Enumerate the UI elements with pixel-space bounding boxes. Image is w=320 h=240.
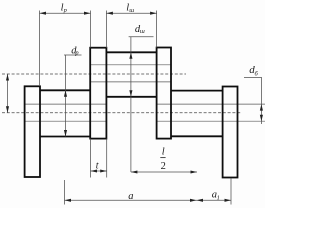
svg-text:2: 2 [161,161,166,172]
thin shaft line upper-right segment [157,103,265,105]
svg-text:t: t [96,161,99,172]
dimension a: right arrow at junction [190,199,197,202]
crank pin thin line upper [90,64,171,66]
dimension a1: left arrow at junction [197,199,204,202]
thin shaft line lower-left segment [25,120,106,122]
thin shaft line lower-right segment [157,120,265,122]
thin shaft line upper-left segment [25,103,106,105]
dimension a1: extension line right (web D center) [230,178,232,205]
dimension d_p: leader underline [64,54,82,56]
crank radius dimension line [7,74,9,113]
dimension d_p: top arrow [64,90,67,97]
dimension a: extension line left (journal 1 center) [64,180,66,205]
lower centerline (main journal axis) [2,112,242,114]
dimension d_b: leader vertical [260,77,262,124]
svg-text:ш: ш [129,7,134,14]
main journal 2 top edge [171,90,223,92]
web C (right crank web) [157,48,171,139]
dimension l_p: left arrow [40,12,47,15]
crank pin top edge [106,51,156,53]
dimension l_sh: extension line right [156,11,158,48]
crank radius bottom arrow [6,106,9,113]
dimension t: extension line right [106,139,108,178]
dimension a: dimension line [65,199,232,201]
svg-text:a: a [128,191,133,202]
svg-text:р: р [74,50,79,57]
dimension a1: right arrow [225,199,232,202]
crank radius top arrow [6,74,9,81]
label l/2 fraction bar [160,157,165,159]
dimension l_sh: left arrow [106,12,113,15]
dimension d_sh: leader vertical [130,37,132,172]
crank pin bottom edge [106,96,156,98]
dimension d_p: bottom arrow [64,130,67,137]
dimension l_sh: extension line left [105,11,107,48]
main journal 1 bottom edge [40,136,90,138]
dimension d_b: leader underline [244,76,262,78]
web D (right counterweight web / flange) [223,87,238,178]
dimension t: extension line left [90,139,92,178]
dimension l_p: extension line right [90,11,92,48]
dimension d_p: leader vertical [65,55,67,137]
dimension l_p: right arrow [84,12,91,15]
dimension d_sh: top arrow [129,52,132,59]
dimension t: left arrow [91,169,98,172]
crank pin thin line lower [90,81,171,83]
dimension l_sh: right arrow [150,12,157,15]
dimension t: right arrow [100,169,107,172]
dimension d_b: bottom arrow [260,115,263,122]
dimension l/2: left arrow [131,170,138,173]
dimension t: dimension line [91,170,107,172]
dimension l/2: dimension line [131,171,197,173]
svg-text:1: 1 [217,194,220,201]
dimension d_sh: leader underline [129,36,154,38]
web A (left counterweight web) [25,86,40,177]
dimension a: left arrow [65,199,72,202]
svg-text:l: l [162,147,165,158]
dimension l_p: extension line left [39,11,41,87]
main journal 1 top edge [40,89,90,91]
dimension l_p: dimension line [40,12,91,14]
upper centerline (crank pin axis) [2,73,186,75]
dimension l_sh: dimension line [106,12,156,14]
web B (left crank web) [90,48,106,139]
dimension l/2: right arrow [191,170,198,173]
dimension d_sh: bottom arrow [129,90,132,97]
main journal 2 bottom edge [171,135,223,137]
svg-text:ш: ш [140,28,145,35]
svg-text:р: р [63,7,68,14]
dimension d_b: top arrow [260,104,263,111]
